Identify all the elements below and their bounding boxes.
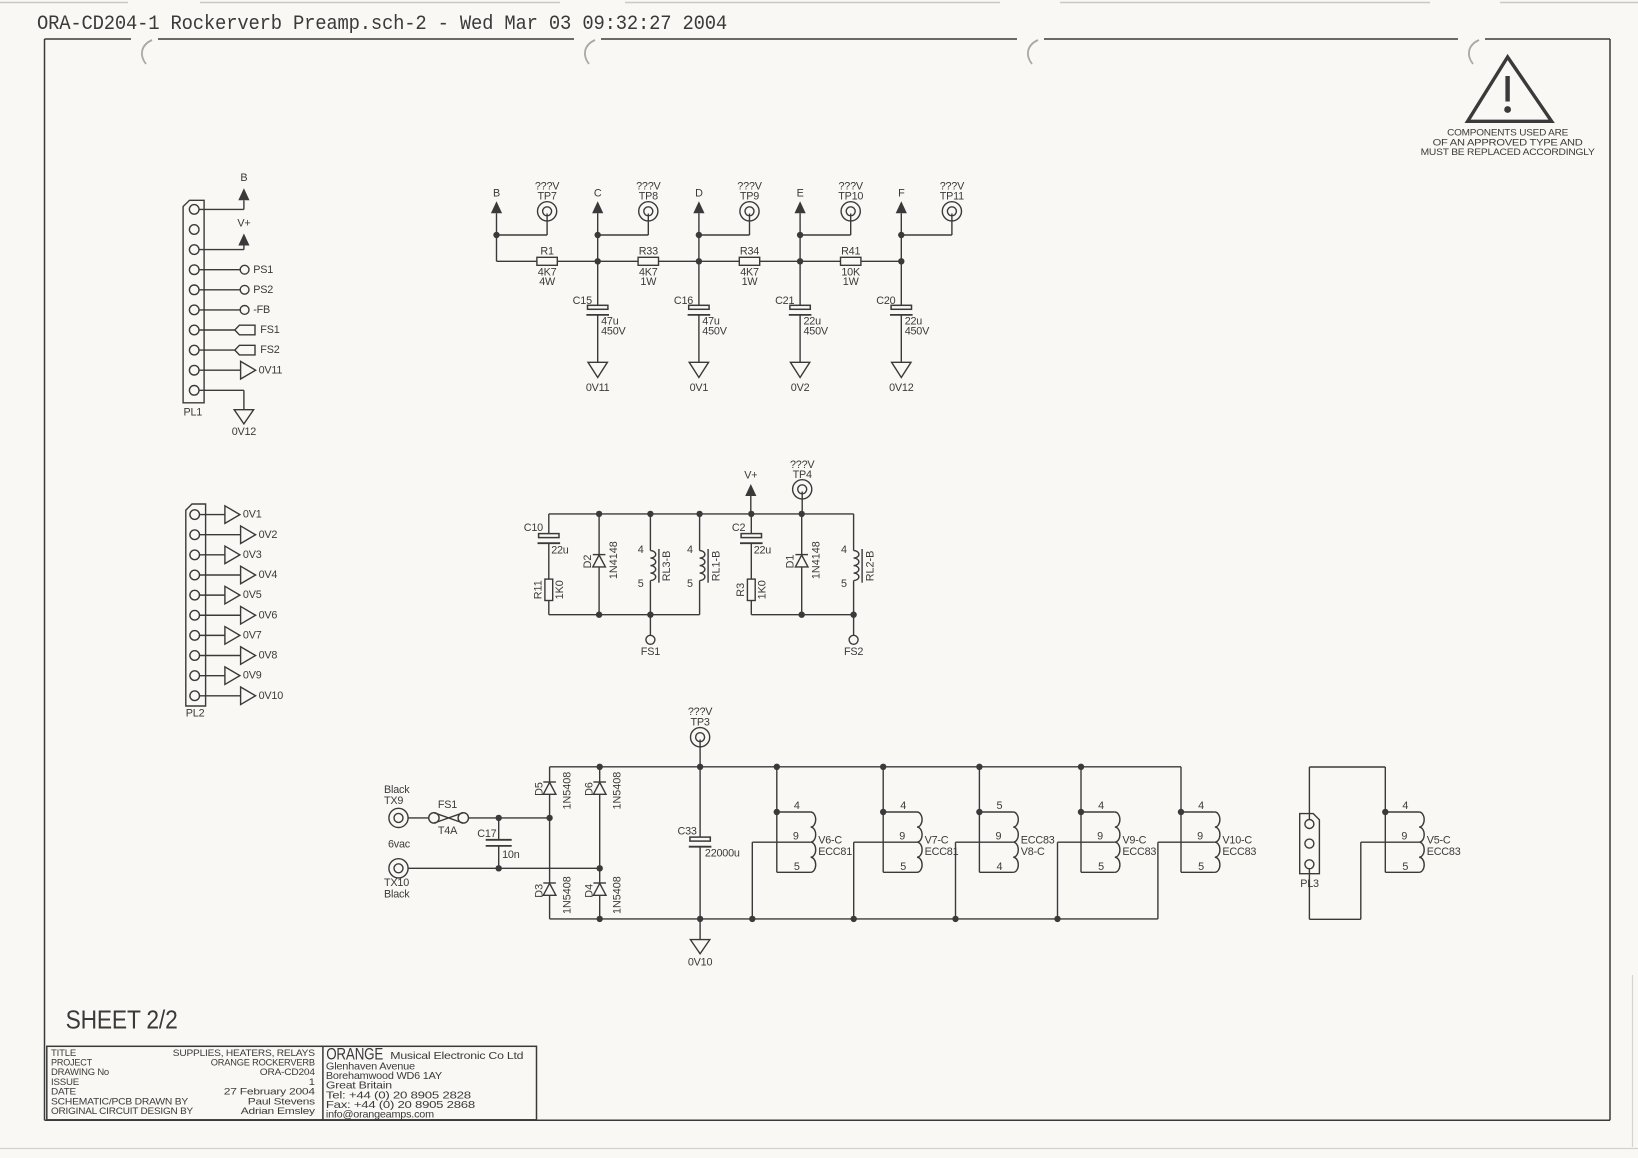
svg-text:ORA-CD204-1 Rockerverb Preamp.: ORA-CD204-1 Rockerverb Preamp.sch-2 - We… bbox=[37, 13, 727, 36]
svg-text:FS1: FS1 bbox=[260, 324, 279, 336]
svg-text:Black: Black bbox=[384, 889, 410, 901]
svg-text:0V2: 0V2 bbox=[259, 529, 278, 541]
svg-text:0V6: 0V6 bbox=[259, 609, 278, 621]
svg-text:FS2: FS2 bbox=[844, 646, 863, 658]
svg-text:6vac: 6vac bbox=[388, 839, 411, 851]
svg-text:0V5: 0V5 bbox=[243, 589, 262, 601]
svg-text:V8-C: V8-C bbox=[1021, 846, 1045, 858]
svg-text:ECC83: ECC83 bbox=[1222, 846, 1256, 858]
svg-text:1W: 1W bbox=[742, 276, 759, 288]
svg-text:ECC83: ECC83 bbox=[1427, 846, 1461, 858]
svg-text:4: 4 bbox=[1098, 800, 1104, 812]
svg-text:5: 5 bbox=[638, 578, 644, 590]
svg-text:4: 4 bbox=[794, 800, 800, 812]
svg-text:TP3: TP3 bbox=[690, 716, 709, 728]
svg-text:R33: R33 bbox=[639, 246, 658, 258]
svg-text:9: 9 bbox=[1197, 831, 1203, 843]
svg-text:Black: Black bbox=[384, 784, 410, 796]
svg-text:C10: C10 bbox=[524, 522, 543, 534]
svg-text:5: 5 bbox=[794, 861, 800, 873]
svg-text:22000u: 22000u bbox=[705, 848, 740, 860]
svg-text:0V12: 0V12 bbox=[232, 426, 257, 438]
svg-text:1N5408: 1N5408 bbox=[612, 772, 624, 810]
svg-text:4: 4 bbox=[841, 544, 847, 556]
svg-text:V+: V+ bbox=[744, 470, 757, 482]
svg-text:PS1: PS1 bbox=[253, 264, 273, 276]
svg-text:C: C bbox=[594, 188, 602, 200]
svg-text:0V9: 0V9 bbox=[243, 670, 262, 682]
svg-text:C17: C17 bbox=[477, 828, 496, 840]
svg-text:22u: 22u bbox=[551, 545, 569, 557]
svg-text:1N4148: 1N4148 bbox=[608, 541, 620, 579]
svg-text:E: E bbox=[797, 188, 804, 200]
svg-text:FS2: FS2 bbox=[260, 344, 279, 356]
svg-text:V5-C: V5-C bbox=[1427, 834, 1451, 846]
svg-text:D2: D2 bbox=[582, 555, 594, 569]
svg-text:1N5408: 1N5408 bbox=[562, 876, 574, 914]
svg-text:V7-C: V7-C bbox=[925, 834, 949, 846]
svg-text:5: 5 bbox=[900, 861, 906, 873]
svg-text:9: 9 bbox=[899, 831, 905, 843]
svg-text:C15: C15 bbox=[573, 295, 592, 307]
svg-text:R34: R34 bbox=[740, 246, 759, 258]
svg-text:PL2: PL2 bbox=[186, 708, 205, 720]
svg-text:D6: D6 bbox=[584, 782, 596, 796]
svg-text:5: 5 bbox=[1402, 861, 1408, 873]
svg-text:0V10: 0V10 bbox=[688, 956, 713, 968]
svg-text:1N5408: 1N5408 bbox=[562, 772, 574, 810]
svg-text:1K0: 1K0 bbox=[756, 580, 768, 599]
svg-text:0V4: 0V4 bbox=[259, 569, 278, 581]
svg-text:9: 9 bbox=[1097, 831, 1103, 843]
svg-text:TP7: TP7 bbox=[537, 190, 556, 202]
svg-text:D4: D4 bbox=[584, 884, 596, 898]
svg-text:4: 4 bbox=[1198, 800, 1204, 812]
svg-text:9: 9 bbox=[793, 831, 799, 843]
svg-text:T4A: T4A bbox=[438, 825, 458, 837]
svg-text:5: 5 bbox=[1098, 861, 1104, 873]
svg-text:V+: V+ bbox=[237, 217, 250, 229]
svg-text:TX10: TX10 bbox=[384, 877, 409, 889]
svg-text:450V: 450V bbox=[905, 326, 930, 338]
svg-text:0V11: 0V11 bbox=[259, 364, 283, 376]
svg-text:PL3: PL3 bbox=[1300, 878, 1319, 890]
svg-text:0V1: 0V1 bbox=[243, 509, 262, 521]
svg-text:MUST BE REPLACED ACCORDINGLY: MUST BE REPLACED ACCORDINGLY bbox=[1421, 147, 1596, 158]
svg-text:D: D bbox=[695, 188, 703, 200]
svg-text:ECC83: ECC83 bbox=[1122, 846, 1156, 858]
svg-text:V9-C: V9-C bbox=[1122, 834, 1146, 846]
svg-text:5: 5 bbox=[841, 578, 847, 590]
svg-text:0V10: 0V10 bbox=[259, 690, 284, 702]
svg-text:FS1: FS1 bbox=[438, 799, 457, 811]
svg-text:4: 4 bbox=[1402, 800, 1408, 812]
svg-text:TP11: TP11 bbox=[940, 190, 964, 202]
svg-text:ECC81: ECC81 bbox=[818, 846, 852, 858]
svg-text:450V: 450V bbox=[601, 326, 626, 338]
svg-text:4W: 4W bbox=[539, 276, 556, 288]
svg-text:TX9: TX9 bbox=[384, 795, 403, 807]
svg-text:9: 9 bbox=[1401, 831, 1407, 843]
svg-text:1W: 1W bbox=[640, 276, 657, 288]
svg-text:5: 5 bbox=[996, 800, 1002, 812]
svg-text:10n: 10n bbox=[502, 849, 520, 861]
svg-text:ECC83: ECC83 bbox=[1021, 834, 1055, 846]
svg-text:TP8: TP8 bbox=[639, 190, 658, 202]
svg-text:D5: D5 bbox=[534, 782, 546, 796]
svg-text:450V: 450V bbox=[804, 326, 829, 338]
svg-text:C20: C20 bbox=[876, 295, 895, 307]
svg-text:TP10: TP10 bbox=[838, 190, 863, 202]
svg-text:4: 4 bbox=[687, 544, 693, 556]
svg-text:4: 4 bbox=[996, 861, 1002, 873]
svg-text:C33: C33 bbox=[677, 825, 696, 837]
svg-text:V6-C: V6-C bbox=[818, 834, 842, 846]
svg-text:450V: 450V bbox=[702, 326, 727, 338]
svg-text:RL3-B: RL3-B bbox=[661, 551, 673, 582]
svg-text:ORA-CD204: ORA-CD204 bbox=[260, 1067, 316, 1078]
svg-text:0V12: 0V12 bbox=[889, 382, 914, 394]
svg-text:Adrian Emsley: Adrian Emsley bbox=[241, 1106, 316, 1117]
svg-text:B: B bbox=[240, 172, 247, 184]
svg-text:0V7: 0V7 bbox=[243, 629, 262, 641]
svg-text:V10-C: V10-C bbox=[1222, 834, 1252, 846]
svg-text:R41: R41 bbox=[841, 246, 860, 258]
svg-text:RL2-B: RL2-B bbox=[864, 551, 876, 582]
svg-text:0V2: 0V2 bbox=[791, 382, 810, 394]
svg-text:4: 4 bbox=[638, 544, 644, 556]
svg-text:5: 5 bbox=[1198, 861, 1204, 873]
svg-text:0V8: 0V8 bbox=[259, 650, 278, 662]
svg-text:C2: C2 bbox=[732, 522, 746, 534]
svg-text:B: B bbox=[493, 188, 500, 200]
svg-text:5: 5 bbox=[687, 578, 693, 590]
svg-text:-FB: -FB bbox=[253, 304, 270, 316]
svg-text:TP9: TP9 bbox=[740, 190, 759, 202]
svg-text:0V3: 0V3 bbox=[243, 549, 262, 561]
svg-text:C21: C21 bbox=[775, 295, 794, 307]
svg-text:info@orangeamps.com: info@orangeamps.com bbox=[326, 1110, 434, 1121]
svg-text:R3: R3 bbox=[735, 583, 747, 597]
svg-text:F: F bbox=[898, 188, 905, 200]
svg-text:ECC81: ECC81 bbox=[925, 846, 959, 858]
svg-text:FS1: FS1 bbox=[641, 646, 660, 658]
svg-text:1K0: 1K0 bbox=[554, 580, 566, 599]
svg-text:1W: 1W bbox=[843, 276, 860, 288]
svg-text:PL1: PL1 bbox=[184, 407, 203, 419]
svg-text:1N4148: 1N4148 bbox=[811, 541, 823, 579]
svg-text:RL1-B: RL1-B bbox=[710, 551, 722, 582]
svg-text:0V11: 0V11 bbox=[586, 382, 610, 394]
svg-text:C16: C16 bbox=[674, 295, 693, 307]
svg-text:9: 9 bbox=[995, 831, 1001, 843]
svg-text:0V1: 0V1 bbox=[690, 382, 709, 394]
svg-text:TP4: TP4 bbox=[793, 469, 812, 481]
svg-text:D3: D3 bbox=[534, 884, 546, 898]
svg-text:1N5408: 1N5408 bbox=[612, 876, 624, 914]
svg-text:22u: 22u bbox=[754, 545, 772, 557]
svg-text:R1: R1 bbox=[540, 246, 554, 258]
svg-text:SHEET 2/2: SHEET 2/2 bbox=[66, 1007, 178, 1035]
svg-text:ORIGINAL CIRCUIT DESIGN BY: ORIGINAL CIRCUIT DESIGN BY bbox=[51, 1106, 194, 1117]
svg-text:4: 4 bbox=[900, 800, 906, 812]
svg-text:D1: D1 bbox=[785, 555, 797, 569]
svg-text:R11: R11 bbox=[532, 580, 544, 599]
svg-text:PS2: PS2 bbox=[253, 284, 273, 296]
